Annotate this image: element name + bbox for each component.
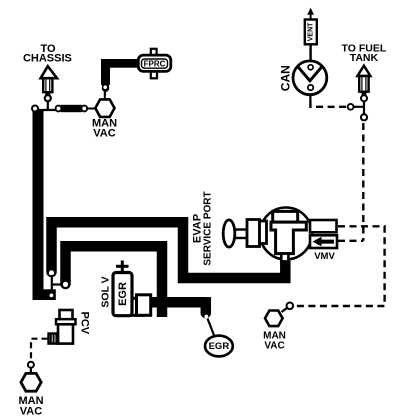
svg-text:PCV: PCV <box>79 311 91 334</box>
svg-text:VAC: VAC <box>264 341 284 352</box>
svg-text:VMV: VMV <box>314 251 335 262</box>
svg-text:TANK: TANK <box>350 52 379 64</box>
svg-text:FPRC: FPRC <box>144 59 166 68</box>
svg-text:EGR: EGR <box>209 341 230 352</box>
svg-text:VENT: VENT <box>307 22 314 41</box>
svg-text:SOL V: SOL V <box>99 276 111 307</box>
svg-text:VAC: VAC <box>93 128 115 140</box>
svg-text:SERVICE PORT: SERVICE PORT <box>202 191 213 265</box>
svg-text:CHASSIS: CHASSIS <box>23 53 72 65</box>
svg-text:EGR: EGR <box>117 282 129 306</box>
svg-text:VAC: VAC <box>20 406 42 418</box>
svg-text:CAN: CAN <box>279 65 293 91</box>
